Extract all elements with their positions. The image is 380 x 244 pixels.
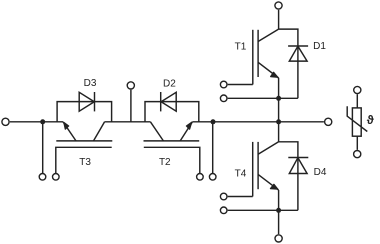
terminal T2 emitter aux <box>209 174 216 181</box>
wire D3 branch <box>57 102 112 122</box>
wire thermistor top lead <box>356 94 358 108</box>
svg-text:D3: D3 <box>84 78 97 89</box>
terminal T2 gate <box>197 174 204 181</box>
wire T3 emitter-sense lead <box>42 122 44 173</box>
wire T2 emitter-sense lead <box>212 122 214 173</box>
terminal P_mid_top <box>127 82 134 89</box>
wire T1 emitter-sense lead <box>228 97 298 99</box>
transistor T1 <box>228 29 279 122</box>
terminal T4 gate <box>220 193 227 200</box>
diode D1 <box>288 46 308 61</box>
wire T1 collector lead <box>278 10 280 29</box>
transistor T4 <box>228 142 279 234</box>
terminal T3 gate <box>53 174 60 181</box>
thermistor slash <box>347 106 367 131</box>
svg-text:T4: T4 <box>235 168 247 179</box>
node T2 emitter junction <box>211 119 216 124</box>
wire D1 branch <box>279 29 298 98</box>
node bridge midpoint <box>276 119 281 124</box>
terminal T4 emitter aux <box>220 207 227 214</box>
terminal T1 gate <box>220 81 227 88</box>
wire mid terminal lead <box>130 90 132 122</box>
wire mid bus <box>105 121 151 123</box>
terminal T1 emitter aux <box>220 95 227 102</box>
wire D2 branch <box>145 102 199 122</box>
wire T4 collector lead <box>278 122 280 142</box>
node T1 emitter / D1 anode <box>276 96 281 101</box>
svg-text:T3: T3 <box>79 157 91 168</box>
svg-text:ϑ: ϑ <box>367 113 374 127</box>
node T4 emitter / D4 anode <box>276 208 281 213</box>
diode D4 <box>288 158 308 174</box>
thermistor R_th body <box>352 108 361 136</box>
svg-text:D2: D2 <box>163 78 176 89</box>
svg-text:D4: D4 <box>314 167 327 178</box>
terminal thermistor bottom <box>354 151 361 158</box>
svg-text:T1: T1 <box>235 41 247 52</box>
diode D3 <box>79 92 94 111</box>
wire T4 emitter-sense lead <box>228 209 298 211</box>
wire thermistor bottom lead <box>356 136 358 150</box>
terminal thermistor top <box>354 86 361 93</box>
terminal P_top <box>275 2 282 9</box>
terminal T3 emitter aux <box>39 174 46 181</box>
terminal P_left <box>2 118 9 125</box>
node T3 emitter junction <box>40 119 45 124</box>
terminal P_right <box>325 118 332 125</box>
svg-text:T2: T2 <box>159 157 171 168</box>
wire D4 branch <box>279 142 298 211</box>
terminal P_bottom <box>275 235 282 242</box>
transistor T2 <box>144 122 200 173</box>
diode D2 <box>161 92 177 111</box>
transistor T3 <box>56 122 113 173</box>
svg-text:D1: D1 <box>313 41 326 52</box>
wire left bus <box>10 121 63 123</box>
wire right bus <box>192 121 324 123</box>
